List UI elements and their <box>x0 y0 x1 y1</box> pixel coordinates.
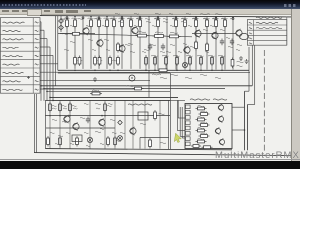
label group top-right <box>200 14 210 15</box>
transistor VT22 <box>215 127 220 134</box>
bus wire net A <box>41 85 252 87</box>
resistor R31 label <box>97 60 102 61</box>
resistor R9 label <box>137 18 143 19</box>
junction node t10 <box>232 16 234 18</box>
wire vertical drop 1 <box>66 16 68 69</box>
resistor R75 <box>154 110 157 121</box>
connector X1 pin 6 number <box>35 64 39 65</box>
resistor R30 label <box>77 60 82 61</box>
resistor R76 label <box>92 90 99 91</box>
resistor R43 label <box>186 55 193 56</box>
wire vertical drop 2 <box>74 16 76 69</box>
resistor R31 <box>94 56 97 67</box>
wire diode branch <box>60 16 62 32</box>
lamp HL2 <box>118 136 123 141</box>
resistor R83 <box>199 124 210 127</box>
wire block vertical 5 <box>104 100 106 148</box>
resistor R84 <box>196 129 207 132</box>
resistor R75 label <box>159 113 165 114</box>
component value labels lower-left block <box>52 103 166 143</box>
wire vertical drop 10 <box>139 17 141 69</box>
junction node s4 <box>49 97 51 99</box>
label group mid band <box>128 43 133 44</box>
wire from X1 pin 2 <box>40 30 44 101</box>
parts list col mark 3 <box>249 33 252 34</box>
resistor R5 label <box>104 18 110 19</box>
resistor R85 <box>199 135 210 138</box>
capacitor C3 <box>86 117 90 124</box>
connector X1 pin 5 number <box>35 55 39 56</box>
junction node f1 <box>154 70 156 72</box>
resistor R50 <box>195 40 198 51</box>
wire right link <box>192 33 236 35</box>
capacitor C4 <box>161 44 165 51</box>
wire base link <box>58 33 95 35</box>
wire vertical drop 7 <box>113 16 115 69</box>
wire from X1 pin 7 <box>40 71 250 73</box>
connector X1 pin 8 number <box>35 81 39 82</box>
bus wire net E <box>53 99 185 101</box>
resistor R62 label <box>72 105 77 106</box>
ground symbol 1 <box>239 56 243 61</box>
junction node m2 <box>69 115 71 117</box>
window title bar <box>0 0 300 9</box>
resistor R53 <box>231 58 234 69</box>
resistor R40 label <box>151 55 158 56</box>
resistor R43 <box>189 56 192 67</box>
wire module right link <box>232 129 245 131</box>
capacitor C1 <box>220 39 224 46</box>
resistor R2 label <box>72 18 78 19</box>
resistor R10 <box>157 18 160 29</box>
resistor R78 label <box>126 85 134 86</box>
terminal node tt6 <box>157 17 159 19</box>
resistor R8 label <box>128 18 134 19</box>
parts list table <box>247 20 286 46</box>
wire vertical drop 20 <box>232 17 234 70</box>
section divider dash-dot line <box>263 50 265 152</box>
resistor R83 label <box>201 122 208 123</box>
resistor R63 label <box>107 105 112 106</box>
terminal node tt1 <box>66 17 68 19</box>
transistor VT4 <box>184 46 190 54</box>
wire vertical drop 19 <box>224 17 226 70</box>
wire vertical drop 17 <box>206 17 208 70</box>
resistor R45 <box>211 56 214 67</box>
junction node t6 <box>157 16 159 18</box>
component value labels top band <box>60 18 240 52</box>
connector X1 row 9 label <box>3 89 23 90</box>
resistor R12 label <box>182 18 188 19</box>
junction node t4 <box>121 16 123 18</box>
resistor R8 <box>130 18 133 29</box>
wire vertical drop 15 <box>184 17 186 70</box>
resistor R15 label <box>213 18 219 19</box>
wire from X1 pin 4 <box>40 47 50 101</box>
junction node t8 <box>195 16 197 18</box>
transistor VT3 <box>119 44 125 52</box>
junction node t3 <box>106 16 108 18</box>
wire vertical drop 3 <box>82 16 84 69</box>
menu item View <box>22 10 30 12</box>
capacitor C5 <box>148 44 152 51</box>
resistor R3 <box>90 18 93 29</box>
resistor R62 <box>69 102 72 113</box>
module input wire bundle <box>178 100 185 138</box>
junction node g1 <box>94 70 96 72</box>
junction node f7 <box>221 70 223 72</box>
wire block vertical 9 <box>144 100 146 148</box>
wire block vertical 3 <box>69 100 71 148</box>
resistor R4 label <box>96 18 102 19</box>
schematic sheet left frame double line <box>35 94 37 153</box>
resistor R12 <box>184 18 187 29</box>
connector X1 pin 7 number <box>35 72 39 73</box>
toolbar mark 2 <box>84 10 91 12</box>
wire block vertical 4 <box>89 100 91 148</box>
resistor R89 <box>191 145 201 148</box>
wire from X1 pin 5 <box>40 55 53 101</box>
resistor R13 label <box>193 18 199 19</box>
module A2 label <box>190 99 210 100</box>
resistor R60 label <box>52 105 57 106</box>
resistor R53 label <box>237 61 244 62</box>
wire vertical drop 6 <box>106 16 108 69</box>
wire vertical drop 8 <box>121 16 123 68</box>
bus wire net D <box>50 96 178 98</box>
window title text <box>2 4 86 6</box>
wire block feed <box>170 73 172 100</box>
resistor R21 label <box>155 32 163 33</box>
resistor R81 <box>199 113 210 116</box>
toolbar control 2 <box>66 10 78 13</box>
resistor R71 <box>76 136 79 147</box>
junction node m0 <box>49 115 51 117</box>
resistor R46 label <box>218 55 225 56</box>
resistor R85 label <box>201 133 208 134</box>
resistor R41 label <box>162 55 169 56</box>
connector X1 row 4 label <box>3 47 19 48</box>
transistor VT1 <box>83 27 89 35</box>
wire module top link <box>232 106 245 108</box>
resistor R14 label <box>204 18 210 19</box>
resistor R86 <box>196 140 207 143</box>
component value labels top section <box>62 21 242 78</box>
right bus upper verticals <box>249 46 255 105</box>
connector X1 pin table <box>0 18 40 94</box>
resistor R21 <box>153 35 166 38</box>
right bus double vertical <box>245 91 248 150</box>
wire vertical drop 5 <box>98 16 100 69</box>
terminal node tt3 <box>98 17 100 19</box>
junction node s5 <box>52 100 54 102</box>
resistor R16 <box>224 18 227 29</box>
resistor R44 label <box>197 55 204 56</box>
resistor R76 <box>90 92 102 95</box>
lamp HL3 <box>182 62 187 67</box>
connector X1 pin 1 number <box>35 22 39 23</box>
resistor R46 <box>221 56 224 67</box>
resistor R41 leads <box>165 55 167 70</box>
resistor R13 <box>195 18 198 29</box>
diode VD2 <box>59 25 64 30</box>
junction node s2 <box>43 88 45 90</box>
wire from X1 pin 9 <box>40 88 140 90</box>
toolbar mark <box>44 10 50 12</box>
resistor R47 <box>145 56 148 67</box>
bus wire net C <box>47 90 170 92</box>
enclosure corner lower <box>140 138 169 149</box>
resistor R52 <box>71 32 82 35</box>
letterbox grey edge line <box>0 159 300 160</box>
resistor R2 <box>74 18 77 29</box>
resistor R4 <box>98 18 101 29</box>
toolbar control <box>55 10 63 13</box>
transistor VT23 <box>219 138 224 145</box>
lower block top rail <box>45 99 170 101</box>
resistor R82 <box>196 118 207 121</box>
relay box K1 <box>72 135 82 142</box>
transistor VT11 <box>73 122 79 130</box>
module box U1 <box>138 112 148 120</box>
wire vertical drop 4 <box>90 16 92 69</box>
resistor R46 leads <box>221 55 223 70</box>
parts list header <box>256 17 282 18</box>
menu bar <box>0 9 300 16</box>
bottom letterbox black bar <box>0 161 300 169</box>
bus rail F <box>58 69 249 71</box>
junction node f2 <box>165 70 167 72</box>
junction node s1 <box>40 85 42 87</box>
resistor R51 <box>206 42 209 53</box>
block right edge double wire <box>169 100 171 149</box>
connector X1 pin 9 number <box>35 89 39 90</box>
resistor R14 <box>206 18 209 29</box>
resistor R1 label <box>64 18 70 19</box>
junction node g2 <box>109 70 111 72</box>
resistor R6 label <box>111 18 117 19</box>
resistor R77 <box>149 138 152 149</box>
resistor R45 leads <box>211 55 213 70</box>
menu item File <box>2 10 9 12</box>
resistor R82 label <box>198 117 205 118</box>
resistor R45 label <box>208 55 215 56</box>
lower block mid rail 2 <box>46 127 115 129</box>
lower block mid rail <box>45 115 170 117</box>
capacitor C2 <box>230 39 234 46</box>
wire block vertical 2 <box>59 100 61 148</box>
terminal node tt10 <box>232 18 234 20</box>
resistor R90 <box>59 136 62 147</box>
polarity mark <box>27 76 30 79</box>
resistor R5 <box>106 18 109 29</box>
transistor VT20 <box>218 104 223 111</box>
schematic sheet bottom frame line <box>34 153 291 156</box>
transistor VT21 <box>218 115 223 122</box>
resistor R80 <box>196 107 207 110</box>
resistor R40 leads <box>154 55 156 70</box>
resistor R48 <box>117 42 120 53</box>
menu item Edit <box>12 10 19 12</box>
rotary component G1 <box>129 75 135 81</box>
connector X1 row 3 label <box>3 39 24 40</box>
terminal node tt8 <box>195 17 197 19</box>
resistor R20 <box>136 34 149 37</box>
terminal node tt9 <box>215 17 217 19</box>
resistor R61 label <box>62 105 67 106</box>
connector X1 row 2 label <box>3 30 21 31</box>
ground symbol 2 <box>245 59 249 64</box>
label Puc <box>128 104 152 105</box>
wire vertical drop 16 <box>195 17 197 70</box>
schematic sheet top frame line <box>40 16 291 17</box>
resistor R43 leads <box>189 55 191 70</box>
terminal node tt5 <box>139 17 141 19</box>
lamp HL1 <box>87 137 92 142</box>
terminal node tt2 <box>82 17 84 19</box>
toolbar box <box>27 9 42 15</box>
resistor R15 <box>215 18 218 29</box>
junction node f3 <box>176 70 178 72</box>
diode VD1 <box>59 19 64 24</box>
resistor R30 <box>74 56 77 67</box>
resistor R22 label <box>170 32 178 33</box>
wire block vertical 6 <box>114 100 116 148</box>
junction node m4 <box>104 115 106 117</box>
connector X1 row 6 label <box>3 64 20 65</box>
wire vertical drop 11 <box>148 17 150 69</box>
resistor R6 <box>113 18 116 29</box>
bus left vertical wire pair <box>56 16 58 86</box>
wire from X1 pin 1 <box>40 22 41 101</box>
resistor R3 label <box>88 18 94 19</box>
junction node g0 <box>74 70 76 72</box>
resistor R7 label <box>119 18 125 19</box>
wire stage divider <box>148 70 150 98</box>
junction node t2 <box>90 16 92 18</box>
wire block vertical 8 <box>132 100 134 148</box>
junction node m1 <box>59 115 61 117</box>
junction node g3 <box>117 70 119 72</box>
resistor R1 <box>66 18 69 29</box>
wire vertical drop 13 <box>166 17 168 70</box>
resistor R86 label <box>198 139 205 140</box>
net labels below rail <box>170 74 178 75</box>
resistor R72 <box>107 136 110 147</box>
diode VD3 <box>118 120 123 125</box>
resistor R40 <box>154 56 157 67</box>
connector X1 row 5 label <box>3 56 23 57</box>
parts list col mark 2 <box>249 28 252 29</box>
bus wire net B <box>44 88 225 90</box>
schematic sheet right frame line <box>286 17 288 45</box>
resistor R34 pair <box>98 56 101 67</box>
right bus jog wires <box>245 91 255 104</box>
transistor VT6 <box>212 31 218 39</box>
resistor R32 <box>109 56 112 67</box>
junction node t1 <box>74 16 76 18</box>
transistor VT10 <box>64 115 70 123</box>
connector X1 pin 3 number <box>35 39 39 40</box>
parts list col mark 1 <box>249 22 252 23</box>
junction node f6 <box>211 70 213 72</box>
lower block bottom rail <box>45 149 232 150</box>
resistor R7 <box>121 18 124 29</box>
resistor R81 label <box>201 111 208 112</box>
resistor R70 <box>47 136 50 147</box>
window control buttons <box>284 4 297 7</box>
resistor R41 <box>165 56 168 67</box>
transistor VT7 <box>132 26 138 34</box>
connector X1 row 8 label <box>3 81 21 82</box>
wire from X1 pin 6 <box>40 63 58 65</box>
wire block vertical 10 <box>159 100 161 148</box>
resistor R44 <box>200 56 203 67</box>
signal wire mid rail <box>60 34 192 37</box>
schematic drawing <box>0 0 300 169</box>
resistor R33 pair <box>78 56 81 67</box>
connector X1 pin 4 number <box>35 47 39 48</box>
bus rail G <box>58 72 170 74</box>
connector X1 pin 2 number <box>35 30 39 31</box>
meter P1 <box>239 33 248 39</box>
resistor R44 leads <box>200 55 202 70</box>
transistor VT5 <box>195 29 201 37</box>
resistor R48b <box>117 56 120 67</box>
terminal node tt4 <box>121 17 123 19</box>
transistor VT13 <box>130 127 136 135</box>
transistor VT7 <box>236 29 242 37</box>
resistor R42 label <box>173 55 180 56</box>
resistor R88 <box>202 146 213 149</box>
resistor R80 label <box>198 106 205 107</box>
resistor R78 <box>133 87 144 90</box>
terminal node tt7 <box>175 17 177 19</box>
ground symbol 3 <box>93 77 97 82</box>
resistor R63 <box>104 102 107 113</box>
resistor R84 label <box>198 128 205 129</box>
resistor R22 <box>168 35 181 38</box>
parts list row 1 text <box>256 22 278 23</box>
resistor R91 <box>114 136 117 147</box>
resistor R60 <box>49 102 52 113</box>
resistor R20 label <box>138 32 146 33</box>
parts list row 2 text <box>256 28 282 29</box>
junction node s3 <box>46 91 48 93</box>
resistor R10 label <box>155 18 161 19</box>
junction node f4 <box>189 70 191 72</box>
wire from X1 pin 3 <box>40 39 47 101</box>
wire from X1 pin 8 <box>40 80 150 82</box>
wire vertical drop 18 <box>215 17 217 70</box>
connector X1 row 1 label <box>3 22 25 23</box>
parts list col mark 4 <box>249 38 252 39</box>
transistor VT12 <box>99 118 105 126</box>
resistor R32 label <box>112 60 117 61</box>
wire block vertical 1 <box>49 100 51 148</box>
resistor R9 <box>139 18 142 29</box>
junction node t5 <box>139 16 141 18</box>
junction node r1 <box>244 129 246 131</box>
module outline A2 <box>185 104 232 149</box>
resistor R11 <box>175 18 178 29</box>
connector X1 row 7 label <box>3 72 24 73</box>
module A2 pin column <box>186 105 191 146</box>
component value labels lower block extra <box>50 103 117 146</box>
wire vertical drop 14 <box>175 17 177 70</box>
resistor R16 label <box>222 18 228 19</box>
junction node f5 <box>200 70 202 72</box>
